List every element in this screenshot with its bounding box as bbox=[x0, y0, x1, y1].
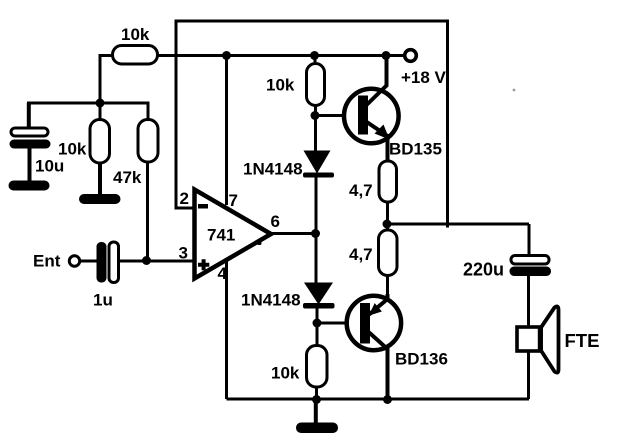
wire BD136 base bbox=[317, 322, 362, 325]
junction pin 7 on supply rail bbox=[222, 51, 231, 60]
op-amp inverting input minus sign bbox=[198, 204, 208, 209]
junction BD135 collector on supply rail bbox=[382, 51, 391, 60]
svg-text:10k: 10k bbox=[58, 140, 87, 159]
artifact speck bbox=[513, 89, 516, 92]
svg-text:1N4148: 1N4148 bbox=[243, 160, 303, 179]
wire diode 1 to output node bbox=[315, 177, 318, 284]
wire upper 4,7 to output node bbox=[386, 201, 389, 231]
capacitor 1u left plate bbox=[97, 242, 107, 283]
junction BD136 base node bbox=[313, 319, 322, 328]
svg-text:10k: 10k bbox=[271, 364, 300, 383]
diode 1N4148 (lower) bbox=[303, 283, 335, 309]
resistor 10k (divider lower) bbox=[90, 120, 110, 164]
wire ground stub bbox=[314, 399, 318, 424]
wire divider 10k bottom lead bbox=[98, 163, 102, 197]
wire ground rail bbox=[227, 398, 530, 401]
capacitor 10u top plate bbox=[11, 128, 48, 136]
wire 1u to pin 3 bbox=[118, 260, 195, 263]
svg-text:47k: 47k bbox=[113, 168, 142, 187]
wire feedback left drop to pin 2 bbox=[176, 21, 195, 208]
svg-text:1u: 1u bbox=[93, 291, 113, 310]
junction BD135 base node bbox=[311, 111, 320, 120]
resistor 4,7 (upper) bbox=[379, 161, 397, 202]
resistor 10k (upper bias) bbox=[307, 64, 325, 106]
junction op-amp output node bbox=[311, 229, 320, 238]
capacitor 220u bottom plate bbox=[510, 267, 552, 277]
svg-text:741: 741 bbox=[207, 226, 235, 245]
svg-text:10u: 10u bbox=[35, 157, 64, 176]
wire feedback top rail bbox=[176, 21, 448, 23]
op-amp 741 bbox=[195, 190, 272, 279]
wire divider 10k top lead bbox=[99, 103, 102, 121]
svg-text:Ent: Ent bbox=[33, 252, 61, 271]
speaker FTE bbox=[517, 306, 559, 372]
svg-text:220u: 220u bbox=[463, 260, 504, 280]
wire pin 4 to ground rail bbox=[225, 261, 228, 399]
ground (divider 10k) bbox=[79, 194, 121, 204]
wire lower bias 10k to ground rail bbox=[315, 387, 318, 399]
junction output node between resistors bbox=[383, 220, 392, 229]
wire bias divider node bbox=[27, 103, 148, 121]
input terminal bbox=[69, 256, 79, 266]
wire 47k bottom lead to pin 3 node bbox=[146, 162, 149, 260]
resistor 4,7 (lower) bbox=[379, 230, 398, 276]
wire +18V supply rail bbox=[156, 54, 405, 57]
wire output node to speaker branch bbox=[387, 223, 529, 226]
svg-text:7: 7 bbox=[229, 191, 238, 210]
resistor 10k (supply to divider) left lead wire bbox=[100, 56, 113, 104]
ground (10u) bbox=[9, 181, 50, 191]
wire speaker branch down to 220u bbox=[528, 224, 531, 257]
wire input terminal to 1u bbox=[81, 260, 97, 263]
wire op-amp output bbox=[269, 232, 317, 235]
junction ground node on rail bbox=[312, 395, 321, 404]
wire feedback right drop to output node bbox=[446, 21, 449, 228]
svg-text:2: 2 bbox=[180, 189, 189, 208]
+18V terminal bbox=[405, 50, 417, 62]
wire diode 2 to lower bias resistor bbox=[316, 308, 319, 347]
junction BD136 collector on ground rail bbox=[383, 395, 392, 404]
svg-text:+18 V: +18 V bbox=[401, 68, 447, 87]
wire bias 10k to diode 1 bbox=[314, 105, 317, 152]
capacitor 10u bottom plate bbox=[10, 140, 51, 149]
svg-text:10k: 10k bbox=[121, 25, 150, 44]
svg-text:4,7: 4,7 bbox=[349, 181, 373, 200]
svg-text:FTE: FTE bbox=[565, 330, 600, 351]
resistor 10k (lower bias) bbox=[307, 346, 328, 388]
resistor 47k bbox=[138, 120, 158, 163]
junction divider node bbox=[96, 99, 105, 108]
wire speaker to ground rail bbox=[527, 351, 530, 399]
capacitor 220u top plate bbox=[511, 256, 549, 265]
wire supply to bias 10k bbox=[314, 56, 317, 66]
artifact nub on op-amp bottom edge bbox=[257, 241, 262, 245]
ground (main) bbox=[296, 423, 338, 434]
svg-text:1N4148: 1N4148 bbox=[241, 291, 301, 310]
op-amp non-inverting input plus sign bbox=[198, 259, 209, 270]
svg-text:6: 6 bbox=[271, 212, 280, 231]
resistor 10k (supply to divider) bbox=[113, 46, 158, 65]
wire BD135 base bbox=[315, 114, 360, 117]
transistor BD135 bbox=[344, 56, 399, 163]
capacitor 1u right plate bbox=[109, 242, 119, 283]
wire 220u to speaker bbox=[527, 276, 530, 328]
wire lower 4,7 to BD136 emitter bbox=[386, 275, 389, 296]
diode 1N4148 (upper) bbox=[303, 151, 334, 178]
svg-text:3: 3 bbox=[179, 244, 188, 263]
junction bias 10k top on supply rail bbox=[310, 51, 319, 60]
junction pin 3 node bbox=[142, 256, 151, 265]
svg-text:BD135: BD135 bbox=[389, 140, 442, 159]
svg-text:10k: 10k bbox=[266, 76, 295, 95]
svg-text:BD136: BD136 bbox=[395, 350, 448, 369]
wire 10u to ground bbox=[28, 148, 32, 183]
svg-text:4,7: 4,7 bbox=[349, 245, 373, 264]
wire pin 7 to +18V bbox=[225, 56, 228, 206]
transistor BD136 bbox=[347, 294, 401, 399]
